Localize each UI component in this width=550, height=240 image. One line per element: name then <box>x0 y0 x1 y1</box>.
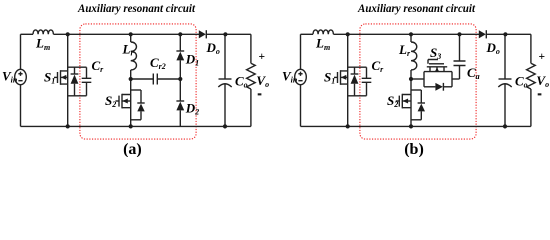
svg-text:S1: S1 <box>44 69 55 85</box>
transistor S1 (b) <box>334 70 348 85</box>
svg-text:Lr: Lr <box>398 42 411 58</box>
transistor S2 (a) <box>116 94 131 109</box>
wire body-diode loop bottom S2 (b) <box>411 119 421 121</box>
svg-text:+: + <box>259 51 266 63</box>
diode D2 (a) <box>176 101 184 126</box>
svg-text:Cr: Cr <box>92 58 105 74</box>
junction dot bottom S2 (b) <box>409 124 413 128</box>
svg-text:Do: Do <box>206 40 220 56</box>
wire left rail lower (a) <box>20 85 22 127</box>
svg-text:S3: S3 <box>430 45 441 61</box>
svg-text:S2: S2 <box>105 93 116 109</box>
inductor Lm (b) <box>313 30 333 34</box>
wire body-diode loop bottom S2 (a) <box>131 119 141 121</box>
label minus (a) <box>258 93 262 95</box>
body diode of S1 (b) <box>351 67 359 96</box>
svg-text:S2: S2 <box>387 93 398 109</box>
junction dot top Ca (b) <box>457 32 461 36</box>
body diode of S3 (b) <box>424 83 452 91</box>
wire load bottom lead (b) <box>530 89 532 126</box>
capacitor Cr2 (a) <box>153 74 157 85</box>
svg-text:Cr2: Cr2 <box>150 55 166 71</box>
junction dot node Lr-S3-S2 (b) <box>409 77 413 81</box>
capacitor Cr (b) <box>362 67 372 96</box>
wire S2 drain-source vertical (b) <box>410 79 412 126</box>
wire D2 top lead (a) <box>179 79 181 101</box>
wire Cr2 left (a) <box>131 78 154 80</box>
junction dot bottom S1 (a) <box>66 124 70 128</box>
body diode of S2 (a) <box>137 90 144 120</box>
wire bottom rail (a) <box>21 125 251 127</box>
wire body-diode loop top S2 (a) <box>131 89 141 91</box>
wire load bottom lead (a) <box>250 89 252 126</box>
svg-text:Do: Do <box>486 40 500 56</box>
svg-text:(a): (a) <box>123 141 142 157</box>
source Vin (b) <box>295 69 307 84</box>
wire left rail lower (b) <box>300 85 302 127</box>
auxiliary resonant circuit dashed box (a) <box>80 24 196 139</box>
source Vin (a) <box>15 69 27 84</box>
wire Ca top lead (b) <box>459 34 461 61</box>
resistor load Vo (b) <box>527 63 536 89</box>
wire top rail left segment (a) <box>21 33 34 35</box>
body diode of S2 (b) <box>418 90 425 120</box>
junction dot top Co (a) <box>223 32 227 36</box>
wire D1 top lead (a) <box>179 34 181 51</box>
junction dot node Cr2-D1-D2 (a) <box>178 77 182 81</box>
capacitor Co (b) <box>498 79 511 126</box>
capacitor Cr (a) <box>82 67 92 96</box>
svg-text:Ca: Ca <box>467 65 480 81</box>
wire body-diode loop top S1 (a) <box>68 66 87 68</box>
svg-text:Auxiliary resonant circuit: Auxiliary resonant circuit <box>77 3 196 15</box>
wire node to S3 block left (b) <box>411 78 424 80</box>
junction dot top Lr (a) <box>129 32 133 36</box>
wire bottom rail (b) <box>301 125 531 127</box>
svg-text:S1: S1 <box>324 69 335 85</box>
wire Lr bottom lead (b) <box>410 70 412 79</box>
transistor S3 (b) <box>427 60 447 72</box>
svg-text:Vin: Vin <box>2 69 18 85</box>
wire top rail right segment (a) <box>206 33 251 35</box>
wire Lr top lead (a) <box>130 34 132 42</box>
junction dot bottom Co (a) <box>223 124 227 128</box>
wire S3 block right bar (b) <box>451 72 453 87</box>
junction dot bottom S2 (a) <box>129 124 133 128</box>
resistor load Vo (a) <box>247 63 256 89</box>
wire top rail left segment (b) <box>301 33 314 35</box>
svg-text:Lm: Lm <box>35 36 50 52</box>
wire S1 drain-source vertical (a) <box>67 34 69 126</box>
inductor Lr (a) <box>131 42 137 70</box>
inductor Lm (a) <box>33 30 53 34</box>
body diode of S1 (a) <box>71 67 79 96</box>
svg-text:Lr: Lr <box>122 42 135 58</box>
auxiliary resonant circuit dashed box (b) <box>360 24 476 139</box>
wire left rail upper (b) <box>300 34 302 69</box>
junction dot top S1 (a) <box>66 32 70 36</box>
wire Co top lead (b) <box>504 34 506 79</box>
svg-text:Vo: Vo <box>256 73 269 89</box>
svg-text:D2: D2 <box>185 100 199 116</box>
wire load top lead (a) <box>250 34 252 63</box>
svg-text:Vo: Vo <box>536 73 549 89</box>
wire Cr2 right (a) <box>157 78 180 80</box>
wire left rail upper (a) <box>20 34 22 69</box>
transistor S2 (b) <box>396 94 411 109</box>
svg-text:Vin: Vin <box>282 69 298 85</box>
svg-text:Cr: Cr <box>372 58 385 74</box>
junction dot top D1 (a) <box>178 32 182 36</box>
wire S3 block to Ca (b) <box>452 78 460 80</box>
junction dot node Lr-Cr2-S2 (a) <box>129 77 133 81</box>
wire S3 drain-source horizontal (b) <box>424 71 452 73</box>
svg-text:D1: D1 <box>185 52 199 68</box>
junction dot bottom Co (b) <box>503 124 507 128</box>
junction dot top Lr (b) <box>409 32 413 36</box>
svg-text:+: + <box>539 51 546 63</box>
diode Do (b) <box>479 30 486 38</box>
wire S1 drain-source vertical (b) <box>347 34 349 126</box>
junction dot bottom S1 (b) <box>346 124 350 128</box>
wire Lr top lead (b) <box>410 34 412 42</box>
junction dot top S1 (b) <box>346 32 350 36</box>
junction dot top Co (b) <box>503 32 507 36</box>
wire top rail mid segment (b) <box>333 33 479 35</box>
label minus (b) <box>538 93 542 95</box>
wire Co top lead (a) <box>224 34 226 79</box>
wire top rail mid segment (a) <box>53 33 199 35</box>
capacitor Ca (b) <box>454 61 466 79</box>
capacitor Co (a) <box>218 79 231 126</box>
wire body-diode loop bottom S1 (b) <box>348 95 367 97</box>
svg-text:(b): (b) <box>404 141 424 157</box>
transistor S1 (a) <box>54 70 68 85</box>
wire load top lead (b) <box>530 34 532 63</box>
diode Do (a) <box>199 30 206 38</box>
wire S3 block left bar (b) <box>423 72 425 87</box>
wire body-diode loop top S2 (b) <box>411 89 421 91</box>
svg-text:Lm: Lm <box>315 36 330 52</box>
wire Lr bottom lead (a) <box>130 70 132 79</box>
wire top rail right segment (b) <box>486 33 531 35</box>
diode D1 (a) <box>176 51 184 79</box>
inductor Lr (b) <box>411 42 417 70</box>
wire body-diode loop top S1 (b) <box>348 66 367 68</box>
wire S2 drain-source vertical (a) <box>130 79 132 126</box>
svg-text:Auxiliary resonant circuit: Auxiliary resonant circuit <box>357 3 476 15</box>
wire body-diode loop bottom S1 (a) <box>68 95 87 97</box>
